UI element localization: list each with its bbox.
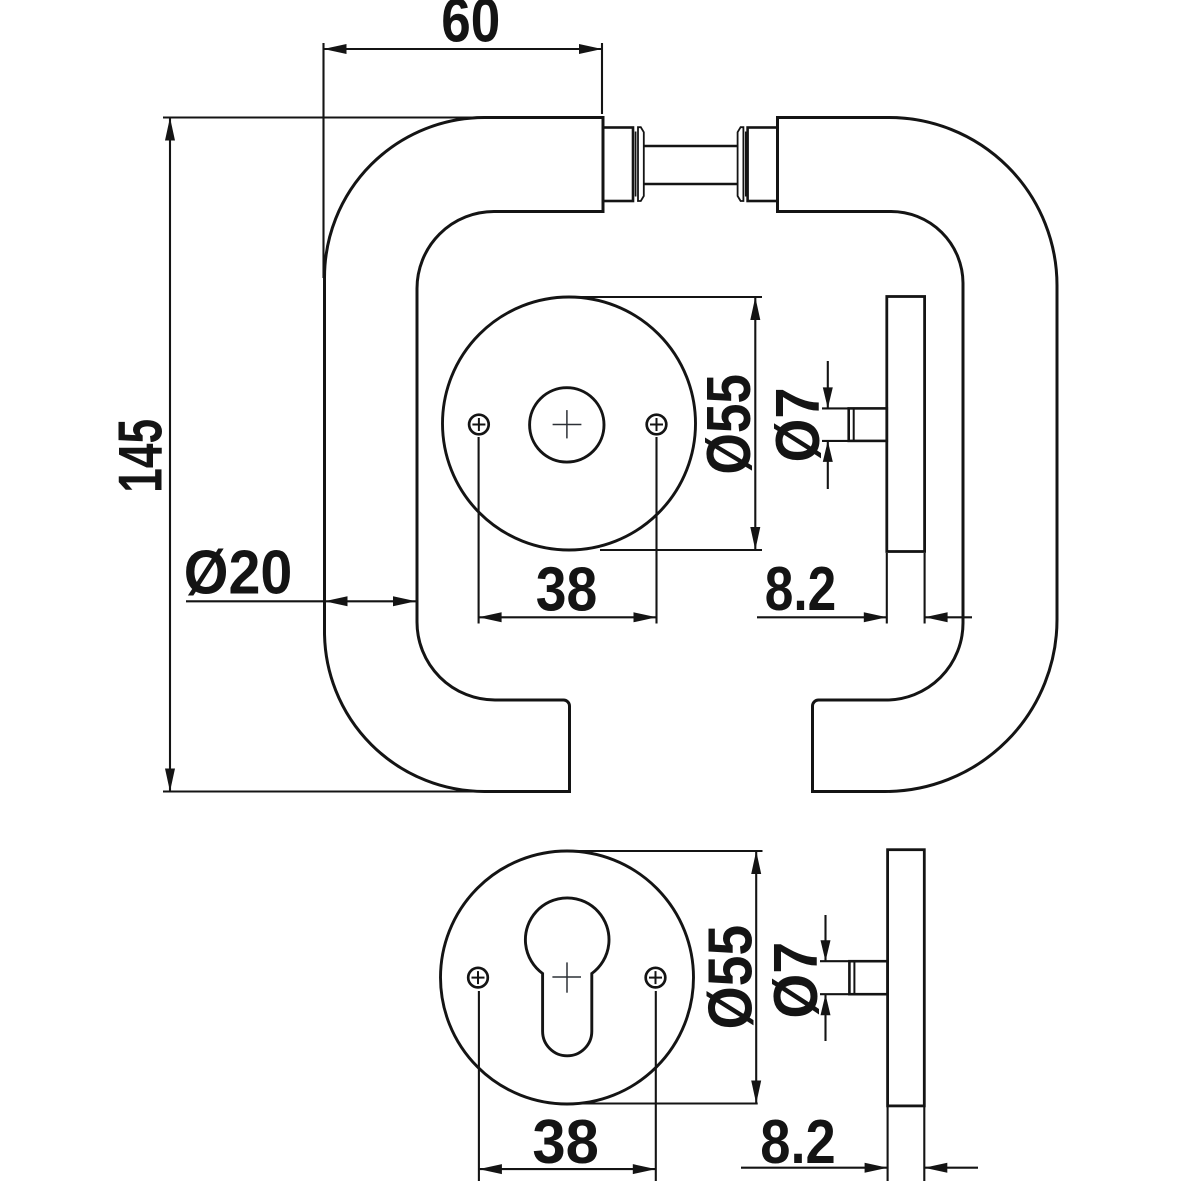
left spindle collar: [603, 128, 633, 202]
dimension D20: [186, 600, 416, 602]
dimension 145: [163, 118, 490, 792]
dimension D7 bottom: [820, 915, 849, 1041]
spindle stub side view, top: [849, 408, 887, 441]
left lever handle outline: [325, 118, 604, 792]
dimension D55 top: [565, 297, 762, 550]
svg-text:Ø7: Ø7: [762, 942, 831, 1019]
left screw hole bottom: [468, 968, 488, 988]
right lever handle outline: [778, 118, 1058, 792]
escutcheon front view, bottom: [441, 851, 694, 1104]
escutcheon side view, bottom: [888, 850, 925, 1106]
spindle hole: [530, 388, 604, 462]
svg-text:60: 60: [441, 0, 500, 56]
dimension 60: [324, 43, 603, 278]
right screw hole: [647, 415, 667, 435]
dimension 8.2 bottom: [741, 1107, 978, 1181]
svg-text:38: 38: [532, 1108, 599, 1177]
euro hole center cross: [552, 962, 581, 992]
dimension D7 top: [822, 361, 849, 489]
euro profile cylinder hole: [525, 898, 609, 1056]
rose (round escutcheon) front view, top: [443, 297, 696, 550]
dimension 38 top: [479, 437, 657, 624]
right spindle ring: [738, 127, 746, 201]
dimension 38 bottom: [479, 991, 656, 1181]
dimension D55 bottom: [561, 851, 763, 1104]
dimension 8.2 top: [757, 553, 972, 624]
svg-text:8.2: 8.2: [760, 1108, 836, 1177]
spindle hole center cross: [553, 410, 582, 438]
right screw hole bottom: [646, 968, 666, 988]
svg-text:8.2: 8.2: [765, 555, 837, 624]
left spindle ring: [636, 127, 644, 201]
svg-text:145: 145: [106, 419, 175, 493]
svg-text:38: 38: [536, 556, 598, 625]
right spindle collar: [748, 128, 778, 202]
left screw hole: [469, 415, 489, 435]
spindle shaft: [644, 146, 738, 184]
svg-text:Ø20: Ø20: [184, 539, 292, 608]
svg-text:Ø7: Ø7: [764, 387, 833, 462]
cylinder stub side view, bottom: [849, 961, 887, 994]
svg-text:Ø55: Ø55: [695, 374, 764, 475]
svg-text:Ø55: Ø55: [696, 925, 765, 1030]
rose side view, top: [887, 297, 925, 552]
